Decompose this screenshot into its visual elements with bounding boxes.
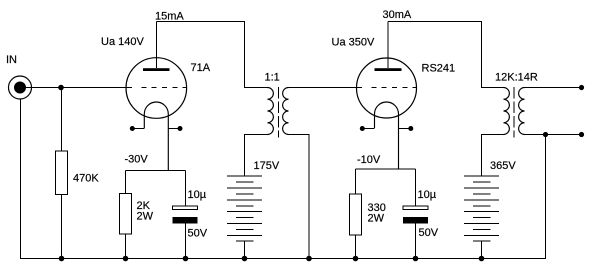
tube V2 grid dashed line <box>371 87 417 89</box>
wire T2 secondary top to output <box>525 87 582 89</box>
svg-text:2W: 2W <box>368 213 385 225</box>
node T1 secondary-bus <box>306 256 312 262</box>
svg-text:12K:14R: 12K:14R <box>495 72 538 84</box>
node R1-bus <box>59 256 65 262</box>
node B2-bus <box>479 256 485 262</box>
tube V1 plate bar <box>143 68 170 71</box>
svg-text:50V: 50V <box>188 228 208 240</box>
svg-text:175V: 175V <box>254 160 280 172</box>
tube V1 filament dot left <box>130 126 135 131</box>
transformer T1 core <box>278 87 280 138</box>
tube V1 filament stub right <box>168 128 179 130</box>
wire T2 primary bottom to B2 <box>482 135 504 177</box>
svg-text:365V: 365V <box>490 160 516 172</box>
tube V1 71A envelope <box>126 58 187 119</box>
wire T2 secondary bottom to output <box>525 134 582 136</box>
svg-text:Ua 350V: Ua 350V <box>332 37 375 49</box>
transformer T2 primary winding <box>504 88 510 135</box>
tube V1 filament dot right <box>178 126 183 131</box>
transformer T2 secondary winding <box>519 88 525 135</box>
node grid junction <box>58 85 64 91</box>
node output terminal bottom <box>579 132 584 137</box>
svg-text:-10V: -10V <box>357 154 381 166</box>
node R3-bus <box>353 256 359 262</box>
svg-text:1:1: 1:1 <box>265 72 280 84</box>
tube V1 plate lead <box>156 22 158 69</box>
wire cathode 1 horizontal <box>126 170 186 172</box>
svg-text:50V: 50V <box>419 227 439 239</box>
svg-text:IN: IN <box>6 54 17 66</box>
tube V2 filament stub left <box>363 128 375 130</box>
node R2-bus <box>123 256 129 262</box>
resistor R1 470K <box>56 88 68 259</box>
svg-text:10µ: 10µ <box>418 189 437 201</box>
wire 30mA net plate to T2 <box>388 22 504 88</box>
tube V1 grid dashed line <box>141 87 186 89</box>
wire T1 secondary bottom to bus <box>289 135 310 259</box>
svg-text:71A: 71A <box>191 62 211 74</box>
svg-text:RS241: RS241 <box>422 63 456 75</box>
transformer T2 core <box>513 87 515 138</box>
capacitor C1 10u <box>173 171 198 259</box>
battery B2 365V <box>464 175 499 259</box>
svg-text:2W: 2W <box>137 211 154 223</box>
node C2-bus <box>413 256 419 262</box>
wire jack down to bus <box>20 99 22 259</box>
tube V1 filament stub left <box>133 128 144 130</box>
tube V2 plate bar <box>375 68 402 71</box>
wire 15mA net plate to T1 <box>157 22 268 88</box>
resistor R2 2K <box>120 171 132 259</box>
svg-text:470K: 470K <box>73 173 99 185</box>
resistor R3 330 <box>350 169 362 259</box>
svg-text:10µ: 10µ <box>188 189 207 201</box>
tube V1 filament dome <box>144 102 168 171</box>
wire output junction down to bus <box>545 135 547 259</box>
tube V2 filament dot left <box>360 126 365 131</box>
svg-text:Ua 140V: Ua 140V <box>101 36 144 48</box>
node output terminal top <box>579 85 584 90</box>
tube V2 RS241 envelope <box>357 58 417 118</box>
tube V2 plate lead <box>387 22 389 69</box>
node output junction <box>543 132 548 137</box>
node B1-bus <box>242 256 248 262</box>
wire cathode 2 horizontal <box>356 168 416 170</box>
wire jack to grid <box>24 87 132 89</box>
node C1-bus <box>183 256 189 262</box>
transformer T1 primary winding <box>268 88 274 135</box>
tube V2 filament dot right <box>408 126 413 131</box>
tube V2 filament dome <box>375 102 399 169</box>
capacitor C2 10u <box>403 169 428 259</box>
battery B1 175V <box>227 175 262 259</box>
svg-text:-30V: -30V <box>125 154 149 166</box>
svg-text:30mA: 30mA <box>383 9 412 21</box>
wire ground bus <box>20 258 546 260</box>
wire T1 primary bottom to B1 <box>245 135 268 177</box>
wire T1 secondary top to V2 grid <box>289 87 363 89</box>
tube V2 filament stub right <box>399 128 411 130</box>
transformer T1 secondary winding <box>283 88 289 135</box>
input jack J1 <box>9 76 32 99</box>
svg-text:15mA: 15mA <box>155 11 184 23</box>
